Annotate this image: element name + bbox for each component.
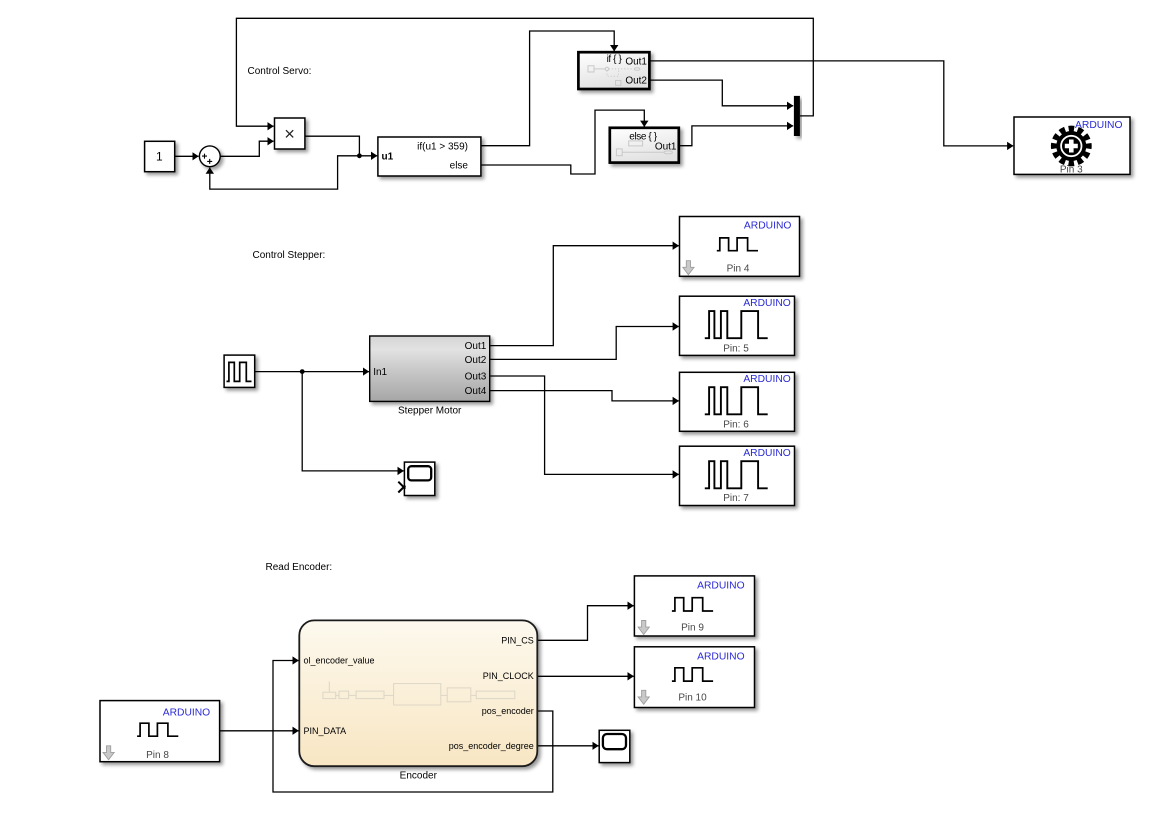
wire if-subsystem Out2 to Merge input 1 (650, 80, 794, 106)
svg-text:Out3: Out3 (465, 372, 487, 383)
wire Encoder pos_encoder_degree to Scope2 (538, 745, 599, 747)
wire Encoder pos_encoder feedback to ol_encoder_value (273, 661, 553, 793)
svg-text:u1: u1 (382, 151, 394, 162)
svg-text:Pin: 5: Pin: 5 (723, 344, 749, 355)
wire Stepper Out3 to Arduino Pin7 (490, 376, 679, 474)
wire If action out to if-subsystem top (481, 31, 614, 146)
svg-text:PIN_CS: PIN_CS (501, 635, 534, 645)
encoder contents preview (323, 682, 515, 706)
merge block (black bar) (794, 96, 800, 136)
svg-text:ARDUINO: ARDUINO (743, 298, 790, 309)
wire if-subsystem Out1 to Arduino Pin3 (650, 61, 1014, 146)
svg-text:ARDUINO: ARDUINO (163, 708, 210, 719)
wire Product to If block input u1 (305, 136, 377, 156)
wire Encoder PIN_CS to Arduino Pin9 (538, 606, 634, 641)
constant block "1" (145, 141, 175, 171)
wire Pulse Generator to Stepper Motor In1 (255, 371, 369, 373)
product block (275, 118, 305, 149)
svg-text:PIN_CLOCK: PIN_CLOCK (483, 671, 534, 681)
wire Merge output feedback to Product upper input (236, 18, 813, 126)
wire junction feedback to Sum bottom input (210, 156, 360, 189)
arduino digital output block Pin 9 (634, 576, 754, 636)
svg-text:ARDUINO: ARDUINO (743, 448, 790, 459)
wire else action out to else-subsystem top (481, 110, 644, 174)
svg-text:Control Servo:: Control Servo: (248, 66, 312, 77)
deploy arrow icon (638, 621, 649, 635)
deploy arrow icon (103, 746, 114, 760)
svg-text:ARDUINO: ARDUINO (744, 221, 791, 232)
svg-text:Pin 4: Pin 4 (727, 264, 750, 275)
if block U1 (378, 137, 481, 176)
pulse generator block (224, 355, 255, 387)
svg-text:else: else (450, 161, 469, 172)
svg-text:Pin: 6: Pin: 6 (723, 419, 749, 430)
svg-text:1: 1 (156, 150, 163, 164)
node junction on pulse wire (300, 369, 305, 374)
svg-text:Control Stepper:: Control Stepper: (253, 250, 326, 261)
arduino servo write block Pin 3 (1014, 117, 1130, 176)
svg-text:Stepper Motor: Stepper Motor (398, 406, 462, 417)
svg-text:Out2: Out2 (465, 355, 487, 366)
wire junction branch to Scope1 (302, 372, 404, 471)
svg-text:Pin 9: Pin 9 (681, 622, 704, 633)
svg-text:ARDUINO: ARDUINO (697, 581, 744, 592)
arduino digital output block Pin 10 (634, 647, 754, 708)
svg-text:Encoder: Encoder (400, 771, 438, 782)
arduino PWM block Pin 5 (680, 296, 795, 355)
svg-text:Pin 10: Pin 10 (678, 692, 707, 703)
svg-text:Out4: Out4 (465, 386, 487, 397)
wire Constant to Sum (175, 155, 199, 157)
svg-text:Pin 3: Pin 3 (1060, 165, 1083, 176)
svg-text:PIN_DATA: PIN_DATA (304, 726, 347, 736)
wire Encoder PIN_CLOCK to Arduino Pin10 (538, 675, 634, 677)
svg-text:In1: In1 (373, 367, 387, 378)
svg-text:pos_encoder_degree: pos_encoder_degree (449, 741, 534, 751)
if action subsystem (578, 52, 649, 89)
svg-text:pos_encoder: pos_encoder (482, 706, 534, 716)
wire Stepper Out4 to Arduino Pin6 (490, 391, 679, 401)
wire Stepper Out1 to Arduino Pin4 (490, 246, 679, 346)
svg-text:ARDUINO: ARDUINO (743, 374, 790, 385)
deploy arrow icon (683, 261, 694, 275)
svg-text:Out1: Out1 (465, 341, 487, 352)
wire Sum to Product lower input (220, 141, 273, 156)
svg-text:Pin 8: Pin 8 (146, 750, 169, 761)
wire Arduino Pin8 to Encoder PIN_DATA (220, 730, 299, 732)
arduino digital output block Pin 4 (680, 217, 800, 277)
node junction on u1 wire (357, 153, 362, 158)
svg-text:Read Encoder:: Read Encoder: (266, 562, 333, 573)
arduino PWM block Pin 7 (680, 446, 795, 505)
wire Stepper Out2 to Arduino Pin5 (490, 327, 679, 360)
svg-text:Out2: Out2 (625, 76, 647, 87)
encoder subsystem (299, 620, 537, 781)
deploy arrow icon (638, 690, 649, 704)
scope block Scope2 (599, 730, 630, 762)
sum block (199, 146, 220, 167)
svg-text:if(u1 > 359): if(u1 > 359) (417, 142, 468, 153)
svg-text:Out1: Out1 (625, 56, 647, 67)
svg-text:Pin: 7: Pin: 7 (723, 493, 749, 504)
wire else-subsystem Out1 to Merge input 2 (679, 126, 793, 146)
arduino PWM block Pin 6 (680, 372, 795, 431)
arduino digital input block Pin 8 (100, 701, 220, 762)
svg-text:ARDUINO: ARDUINO (697, 652, 744, 663)
gear icon (1054, 129, 1088, 163)
scope block Scope1 (398, 462, 435, 495)
svg-text:ol_encoder_value: ol_encoder_value (304, 656, 375, 666)
else action subsystem (610, 128, 679, 163)
stepper motor subsystem (370, 336, 490, 417)
svg-text:if { }: if { } (607, 54, 623, 65)
